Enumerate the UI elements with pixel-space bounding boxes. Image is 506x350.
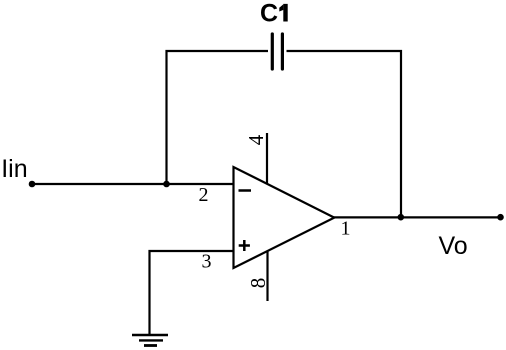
svg-text:1: 1 xyxy=(341,218,351,240)
svg-text:2: 2 xyxy=(199,184,209,206)
svg-text:3: 3 xyxy=(202,250,212,272)
svg-text:Vo: Vo xyxy=(439,232,468,260)
svg-text:C: C xyxy=(260,0,278,28)
svg-text:4: 4 xyxy=(244,134,268,145)
svg-text:Iin: Iin xyxy=(1,155,27,183)
svg-text:8: 8 xyxy=(246,278,270,289)
